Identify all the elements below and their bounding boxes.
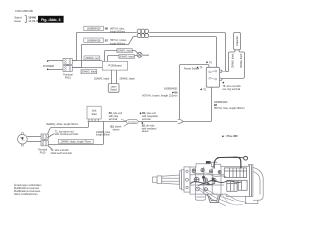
svg-text:H07V-K, blue, length 200mm: H07V-K, blue, length 200mm bbox=[214, 107, 245, 110]
svg-text:Fig. /Abb. 3: Fig. /Abb. 3 bbox=[41, 18, 60, 22]
node B3 annotation bbox=[111, 124, 129, 132]
svg-text:FA10: FA10 bbox=[65, 76, 71, 79]
terminal stadium bbox=[127, 120, 138, 124]
label 1609B04928 bbox=[84, 38, 127, 45]
ring terminal bbox=[244, 156, 248, 160]
cord guard coil bbox=[137, 29, 149, 38]
wire red to PCB bbox=[72, 60, 102, 62]
drill drawing bbox=[153, 156, 264, 206]
svg-text:Laser: Laser bbox=[111, 86, 117, 89]
cable H81 plug bbox=[206, 161, 211, 164]
spindle shaft bbox=[153, 170, 185, 190]
node B2 sleeve annotation bbox=[141, 122, 157, 133]
svg-text:terminal: terminal bbox=[109, 118, 118, 121]
svg-text:13.09.09: 13.09.09 bbox=[28, 19, 39, 23]
svg-text:POWER: POWER bbox=[43, 64, 54, 68]
label 19AWG black 75mm bbox=[58, 139, 93, 143]
svg-text:18AWG, black: 18AWG, black bbox=[232, 53, 235, 68]
rear bars bbox=[250, 165, 252, 197]
power switch S1 bbox=[206, 67, 225, 87]
figure label box bbox=[38, 16, 64, 23]
wire bus to terminal bbox=[88, 121, 127, 123]
wire soft start pins bbox=[89, 119, 98, 122]
wire B7 drop bbox=[72, 45, 81, 68]
svg-text:with combine terminal: with combine terminal bbox=[55, 133, 79, 136]
screw heads bbox=[192, 169, 221, 191]
wire capacitor lead right bbox=[222, 50, 245, 79]
issue block bbox=[14, 16, 39, 24]
svg-text:= Pos. 800: = Pos. 800 bbox=[225, 135, 238, 138]
wire B8 drop bbox=[72, 33, 76, 61]
wire capacitor lead left bbox=[229, 50, 236, 72]
internal cable wavy bbox=[191, 180, 242, 183]
label 20AWG black laser2 bbox=[119, 55, 135, 59]
svg-text:20AWG, black: 20AWG, black bbox=[120, 77, 136, 80]
label 20AWG black bbox=[81, 70, 97, 74]
label 1609B04932 blue 200mm bbox=[214, 101, 245, 110]
svg-text:1609B04928: 1609B04928 bbox=[87, 39, 101, 42]
node T4 bbox=[197, 67, 199, 69]
wire black to PCB bbox=[72, 67, 102, 69]
svg-text:length 660mm: length 660mm bbox=[110, 31, 125, 34]
label 19AWG blue 80mm bbox=[96, 131, 111, 137]
svg-text:sleeve: sleeve bbox=[142, 130, 150, 133]
svg-text:terminal: terminal bbox=[142, 118, 151, 121]
wire power N bbox=[48, 69, 63, 71]
wire brown to switch T6 bbox=[149, 37, 216, 68]
node B4 annotation bbox=[109, 112, 127, 121]
svg-text:Terminal: Terminal bbox=[128, 121, 137, 124]
connector junction plug bbox=[178, 119, 183, 123]
wire motor to terminal 1 bbox=[27, 136, 41, 138]
svg-text:Laser: Laser bbox=[143, 54, 149, 57]
svg-text:Salvo modificaciones: Salvo modificaciones bbox=[14, 193, 38, 196]
node T1 annotation bbox=[47, 130, 78, 137]
trigger parts bbox=[195, 188, 247, 207]
capacitor C1 bbox=[234, 32, 241, 49]
node T2 annotation bbox=[48, 146, 72, 155]
svg-text:20AWG, red: 20AWG, red bbox=[85, 57, 99, 60]
svg-text:Start: Start bbox=[91, 113, 97, 116]
wire motor to terminal 2 bbox=[27, 141, 41, 143]
svg-text:H07V-K, brown, length 210mm: H07V-K, brown, length 210mm bbox=[142, 94, 177, 98]
motor block bbox=[224, 168, 247, 191]
svg-text:20AWG, black: 20AWG, black bbox=[117, 50, 132, 53]
label 20AWG black laser1 bbox=[117, 49, 133, 53]
svg-text:Issue: Issue bbox=[14, 19, 21, 23]
svg-text:18AWG, black: 18AWG, black bbox=[240, 53, 243, 68]
svg-text:one ring terminal: one ring terminal bbox=[222, 88, 240, 91]
laser switch S2 bbox=[108, 84, 119, 93]
node POWER pins bbox=[47, 60, 48, 61]
svg-text:length 80mm: length 80mm bbox=[96, 134, 110, 137]
wire blue to capacitor node bbox=[149, 33, 228, 72]
svg-text:sleeve: sleeve bbox=[113, 129, 121, 132]
footer modifications text bbox=[14, 184, 42, 196]
legend Pos 800 bbox=[222, 135, 224, 137]
gearbox front plate bbox=[184, 167, 190, 192]
svg-text:shark teeth terminal: shark teeth terminal bbox=[51, 152, 72, 155]
motor M1 bbox=[18, 133, 28, 146]
wire LED switch 1 bbox=[111, 70, 113, 84]
svg-text:(6AWG), white, length 60mm: (6AWG), white, length 60mm bbox=[46, 123, 78, 126]
svg-text:Capacitor: Capacitor bbox=[236, 36, 239, 46]
svg-text:20AWG, black: 20AWG, black bbox=[94, 77, 110, 80]
PCB board U1 bbox=[102, 61, 127, 70]
node T5 bbox=[200, 88, 202, 90]
svg-text:19AWG, black, length 75mm: 19AWG, black, length 75mm bbox=[61, 141, 91, 144]
svg-text:length 680mm: length 680mm bbox=[110, 42, 125, 45]
svg-text:B7: B7 bbox=[105, 39, 109, 43]
label 1609B04929 bbox=[84, 26, 125, 33]
wire power L bbox=[48, 60, 63, 62]
wire black 75mm bbox=[48, 122, 103, 145]
wire laser 1 bbox=[105, 51, 138, 62]
svg-text:B8: B8 bbox=[105, 27, 109, 31]
svg-text:3 601 M28 000: 3 601 M28 000 bbox=[15, 9, 33, 13]
label 20AWG red bbox=[84, 56, 100, 60]
lamp Laser bbox=[137, 52, 149, 57]
svg-text:20AWG, black: 20AWG, black bbox=[119, 56, 134, 59]
node T8 annotation bbox=[222, 82, 241, 91]
wire white 60mm bbox=[48, 122, 89, 135]
wire laser 2 bbox=[108, 56, 138, 62]
cable clips bbox=[217, 157, 218, 158]
svg-text:1609B04931: 1609B04931 bbox=[164, 88, 178, 91]
terminal FA10 lower bbox=[38, 134, 48, 154]
housing outline bbox=[190, 164, 253, 197]
svg-text:20AWG, black: 20AWG, black bbox=[81, 71, 97, 74]
wire switch left to connector bbox=[180, 65, 209, 120]
terminal FA10 bbox=[63, 59, 73, 80]
wire B7 brown run bbox=[82, 37, 137, 45]
node B2 receptacle annotation bbox=[140, 112, 159, 121]
svg-text:FA10: FA10 bbox=[40, 151, 46, 154]
wire terminal to connector bbox=[138, 121, 177, 123]
wire B8 blue run bbox=[77, 32, 137, 34]
wire switch bottom blue 200mm bbox=[183, 87, 212, 121]
soft start module bbox=[87, 106, 101, 119]
cable ring wire bbox=[214, 157, 241, 168]
svg-text:Switch: Switch bbox=[110, 89, 117, 92]
svg-text:PCB Board: PCB Board bbox=[109, 64, 123, 68]
node T6 bbox=[206, 61, 208, 63]
wire LED switch 2 bbox=[116, 70, 118, 84]
handle bbox=[245, 168, 263, 204]
svg-text:1609B04929: 1609B04929 bbox=[87, 28, 101, 31]
label 1609B04931 brown 210mm bbox=[142, 88, 178, 98]
